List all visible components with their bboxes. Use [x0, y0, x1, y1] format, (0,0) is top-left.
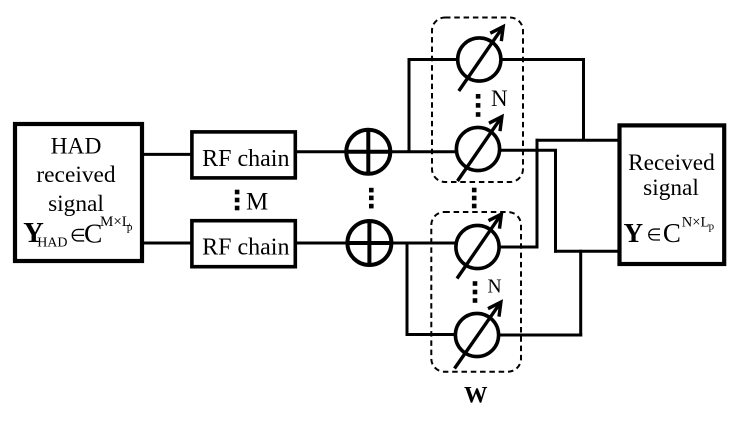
svg-text:N×L: N×L: [682, 215, 710, 231]
ellipsis dots in dashed box W2: [473, 281, 478, 303]
summation node S1: [346, 130, 390, 174]
ellipsis dots between dashed boxes: [472, 188, 477, 209]
wire: left box to RF chain 2: [142, 242, 192, 245]
box: RF chain 2: [192, 221, 295, 267]
wire: antenna line 2 vertical: [554, 149, 557, 253]
box: HAD received signal: [15, 124, 142, 261]
svg-text:Y: Y: [624, 218, 644, 248]
dashed box W1: [432, 18, 523, 183]
wire: RF chain 1 to summation S1: [296, 150, 346, 153]
wire: antenna line 2 branch down: [579, 250, 582, 337]
box: RF chain 1: [192, 132, 295, 178]
summation node S2: [347, 221, 391, 265]
svg-text:signal: signal: [48, 191, 104, 217]
svg-text:received: received: [36, 162, 116, 188]
phase shifter T2: [456, 117, 502, 181]
box: Received signal: [620, 125, 725, 264]
svg-text:M: M: [246, 189, 268, 216]
wire: left box to RF chain 1: [142, 153, 192, 156]
phase shifter B2: [455, 302, 501, 368]
wire: antenna line 2 horizontal into received box: [554, 250, 620, 253]
svg-text:N: N: [488, 277, 502, 298]
ellipsis dots in dashed box W1: [476, 94, 481, 117]
svg-text:RF chain: RF chain: [202, 235, 289, 261]
ellipsis dots between RF chains: [235, 190, 240, 211]
wire: summation S2 to phase shifter B1: [391, 242, 456, 245]
svg-text:p: p: [709, 221, 715, 233]
ellipsis dots between summation nodes: [369, 188, 374, 209]
svg-text:Received: Received: [628, 150, 715, 176]
svg-text:C: C: [663, 218, 681, 248]
svg-text:p: p: [127, 222, 133, 234]
phase shifter B1: [456, 214, 502, 278]
svg-text:W: W: [464, 383, 488, 409]
svg-text:N: N: [491, 86, 508, 111]
svg-text:RF chain: RF chain: [202, 146, 289, 172]
wire: antenna line 1 horizontal into received box: [536, 139, 621, 142]
svg-text:HAD: HAD: [37, 236, 67, 251]
wire: antenna line 2 to phase shifter B2: [499, 334, 583, 337]
wire: branch vertical down to phase shifter B2: [407, 243, 455, 335]
wire: phase shifter T1 output right then down: [501, 60, 584, 141]
wire: summation S1 to phase shifter T2: [390, 150, 457, 153]
svg-text:signal: signal: [643, 175, 699, 201]
wire: RF chain 2 to summation S2: [296, 242, 347, 245]
dashed box W2: [431, 212, 521, 372]
svg-text:∈: ∈: [647, 226, 662, 245]
svg-text:HAD: HAD: [51, 133, 102, 159]
wire: phase shifter T2 output right: [500, 149, 558, 152]
wire: antenna line 1 to phase shifter B1: [499, 246, 538, 249]
wire: branch vertical up to phase shifter T1: [409, 60, 458, 152]
phase shifter T1: [458, 27, 504, 91]
wire: antenna line 1 vertical down: [536, 139, 539, 249]
